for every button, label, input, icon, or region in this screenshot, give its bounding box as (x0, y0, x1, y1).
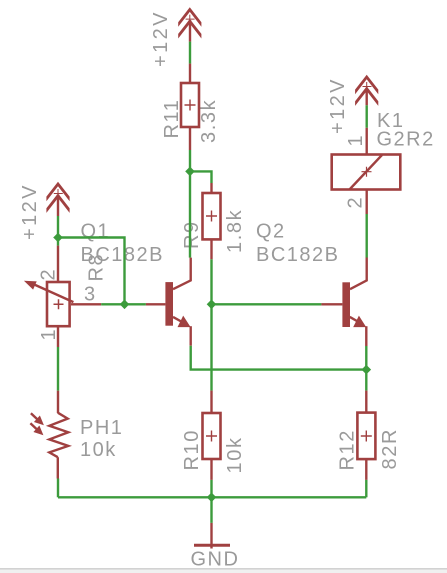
base bar (165, 282, 173, 326)
svg-text:R11: R11 (161, 98, 183, 138)
svg-text:G2R2: G2R2 (377, 128, 435, 150)
wire (190, 171, 212, 183)
wire (365, 480, 367, 497)
wire (210, 259, 212, 304)
svg-text:1.8k: 1.8k (224, 209, 246, 253)
svg-text:GND: GND (191, 549, 240, 571)
light arrow 1 (31, 413, 37, 419)
svg-text:3: 3 (84, 284, 97, 306)
svg-text:2: 2 (38, 268, 60, 281)
supply +12V (right) (355, 75, 378, 95)
wire (189, 42, 191, 64)
node junction (ground rail / GND) (207, 493, 217, 503)
base bar (342, 282, 350, 327)
svg-text:Q2: Q2 (256, 221, 286, 243)
node junction (+12V / R8 / to base Q1) (53, 233, 63, 243)
pin 1 down (57, 327, 59, 347)
svg-text:BC182B: BC182B (256, 244, 340, 266)
base pin (321, 303, 342, 305)
svg-text:PH1: PH1 (80, 417, 123, 439)
svg-text:3.3k: 3.3k (198, 99, 220, 143)
pin (366, 88, 368, 106)
resistor R12 82R (357, 391, 375, 480)
wire (365, 370, 367, 391)
wire (to Q1 base path) (58, 238, 125, 305)
collector (173, 258, 191, 290)
supply +12V (left) (46, 182, 69, 202)
ground GND (194, 523, 230, 549)
wire (57, 216, 59, 238)
svg-text:82R: 82R (379, 428, 401, 470)
photoresistor PH1 10k (30, 391, 68, 479)
collector (350, 258, 367, 290)
svg-text:Q1: Q1 (81, 221, 111, 243)
svg-text:2: 2 (345, 196, 367, 209)
potentiometer R8 (24, 238, 125, 348)
wire (junction to Q2 base) (212, 303, 322, 305)
wire (ground rail) (58, 496, 366, 498)
wiper pin (71, 303, 101, 305)
light arrow 2 (30, 423, 36, 429)
window edge line (0, 568, 447, 570)
wire (junction down to R10) (210, 304, 212, 390)
node junction (collector Q1 / R11 / R9) (185, 167, 195, 177)
wire (189, 150, 191, 171)
svg-text:+12V: +12V (19, 183, 41, 240)
svg-text:R9: R9 (181, 220, 203, 249)
transistor Q1 BC182B (146, 258, 191, 346)
svg-text:1: 1 (38, 328, 60, 341)
pin (57, 195, 59, 217)
wire (57, 479, 59, 498)
svg-text:10k: 10k (224, 436, 246, 473)
node junction (R8 wiper / Q1 base) (120, 300, 130, 310)
wire (Q1 emitter rail) (191, 346, 367, 370)
pin (189, 20, 191, 42)
wire (210, 480, 212, 497)
emitter (173, 317, 183, 323)
node junction (Q2 emitter / Q1 emitter / R12) (362, 365, 372, 375)
svg-text:R10: R10 (181, 429, 203, 471)
wire (57, 347, 59, 391)
resistor R9 1.8k (203, 183, 221, 259)
emitter (350, 317, 360, 323)
resistor R11 3.3k (181, 64, 199, 150)
svg-text:10k: 10k (80, 439, 117, 461)
relay K1 G2R2 (332, 128, 401, 214)
wire (to GND) (210, 497, 212, 523)
svg-text:1: 1 (345, 134, 367, 147)
svg-text:BC182B: BC182B (81, 244, 165, 266)
wire (365, 346, 367, 370)
svg-text:R12: R12 (337, 429, 359, 471)
node junction (R9 / Q2 base / R10) (207, 300, 217, 310)
svg-text:+12V: +12V (150, 10, 172, 67)
wire (junction to Q1 base) (125, 303, 146, 305)
wire (189, 171, 191, 257)
resistor R10 10k (203, 391, 221, 480)
svg-text:+12V: +12V (327, 77, 349, 134)
supply +12V (middle top) (178, 7, 201, 27)
wiper arrow (32, 284, 73, 303)
wire (366, 214, 368, 258)
wire (366, 105, 368, 128)
base pin (146, 303, 166, 305)
transistor Q2 BC182B (321, 258, 366, 347)
